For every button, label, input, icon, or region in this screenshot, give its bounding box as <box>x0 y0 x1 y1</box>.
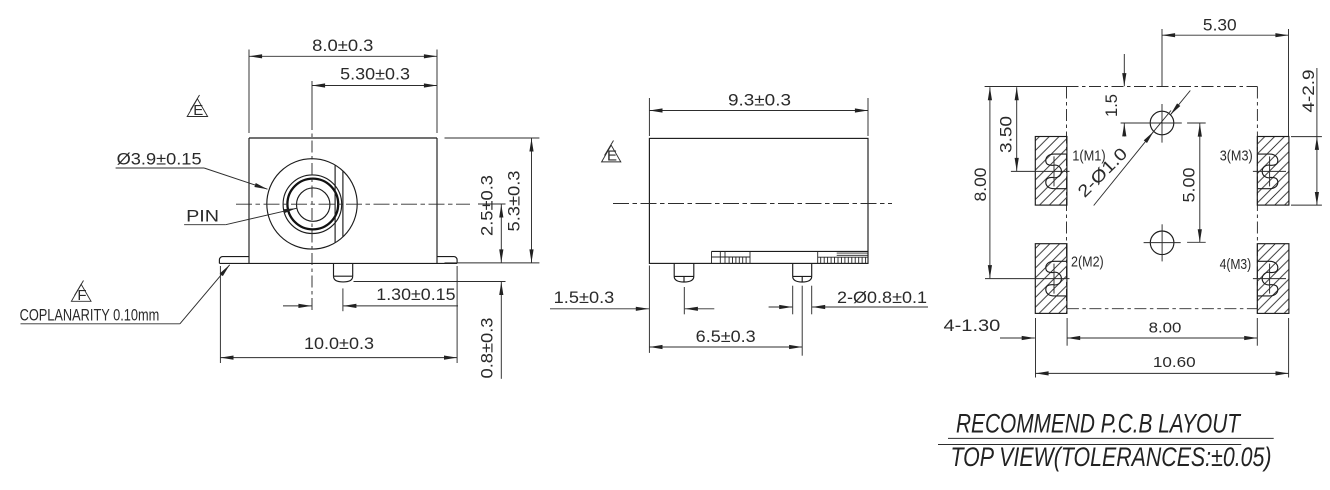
svg-text:5.3±0.3: 5.3±0.3 <box>505 171 524 232</box>
dimension 5.30 <box>1162 16 1289 136</box>
svg-text:3(M3): 3(M3) <box>1220 148 1253 165</box>
front view right flange <box>437 257 457 264</box>
svg-text:6.5±0.3: 6.5±0.3 <box>696 327 756 346</box>
extension lines right side front <box>445 137 540 139</box>
svg-text:1(M1): 1(M1) <box>1072 148 1106 165</box>
pad 3 center tick <box>1253 170 1286 172</box>
dimension 3.50 <box>997 87 1017 171</box>
svg-text:E: E <box>607 148 617 165</box>
coplanarity note with leader <box>20 265 230 325</box>
pad 2 center tick / 8.00 extension <box>985 278 1070 280</box>
svg-text:COPLANARITY 0.10mm: COPLANARITY 0.10mm <box>20 305 160 324</box>
dimension 8.00 left <box>971 87 990 278</box>
svg-text:10.60: 10.60 <box>1153 354 1196 371</box>
dimension 2-Ø0.8±0.1 <box>769 286 928 315</box>
contact ring bold <box>287 179 338 230</box>
title recommend pcb layout <box>938 409 1274 445</box>
pad 4 center tick <box>1253 278 1286 280</box>
center pin hole circle <box>297 188 330 221</box>
svg-text:10.0±0.3: 10.0±0.3 <box>304 334 374 353</box>
svg-text:0.8±0.3: 0.8±0.3 <box>478 318 497 379</box>
dimension 1.5±0.3 <box>550 287 714 314</box>
side view bottom ledge <box>712 250 869 252</box>
dimension 8.00 bottom <box>1067 318 1257 346</box>
svg-text:8.00: 8.00 <box>971 168 990 202</box>
datum triangle E side <box>602 141 621 165</box>
horizontal centerline side <box>613 203 892 205</box>
horizontal centerline front <box>236 203 470 205</box>
hole circle top <box>1121 104 1206 143</box>
label Ø3.9±0.15 with leader <box>116 150 268 190</box>
front view left flange <box>219 257 249 264</box>
label PIN with leader <box>184 207 296 226</box>
svg-text:2.5±0.3: 2.5±0.3 <box>478 175 497 236</box>
leader 2-Ø1.0 <box>1074 91 1190 206</box>
svg-text:Ø3.9±0.15: Ø3.9±0.15 <box>117 150 202 169</box>
svg-text:2-Ø0.8±0.1: 2-Ø0.8±0.1 <box>837 288 927 307</box>
svg-text:9.3±0.3: 9.3±0.3 <box>728 90 791 109</box>
contact-spring bar <box>334 166 336 243</box>
barrel outer circle <box>267 159 357 249</box>
pad 2 hatched <box>1035 244 1067 314</box>
svg-text:5.30±0.3: 5.30±0.3 <box>340 64 410 83</box>
svg-text:1.5: 1.5 <box>1102 94 1121 117</box>
svg-text:1.30±0.15: 1.30±0.15 <box>376 285 455 304</box>
side view left pin <box>674 263 694 282</box>
svg-text:3.50: 3.50 <box>997 116 1016 153</box>
svg-text:RECOMMEND P.C.B LAYOUT: RECOMMEND P.C.B LAYOUT <box>956 409 1242 439</box>
dimension 4-2.9 <box>1291 68 1322 205</box>
svg-text:8.00: 8.00 <box>1149 320 1182 337</box>
svg-text:4-2.9: 4-2.9 <box>1299 70 1318 113</box>
side view body outline <box>649 138 868 263</box>
dimension 8.0±0.3 <box>249 36 437 133</box>
svg-text:2(M2): 2(M2) <box>1071 254 1104 271</box>
dimension 1.30±0.15 <box>283 285 458 311</box>
dimension 4-1.30 <box>944 316 1035 338</box>
hole circle bottom <box>1144 224 1206 261</box>
svg-text:4(M3): 4(M3) <box>1220 256 1252 273</box>
dimension 0.8±0.3 <box>478 282 502 379</box>
svg-text:5.00: 5.00 <box>1180 168 1199 203</box>
svg-text:1.5±0.3: 1.5±0.3 <box>554 288 615 307</box>
knurl band left <box>712 251 751 263</box>
pad 4 hatched <box>1257 244 1289 314</box>
datum triangle F <box>71 281 91 305</box>
dimension 10.60 <box>1036 318 1289 378</box>
front solder pin <box>334 263 353 282</box>
svg-text:5.30: 5.30 <box>1203 16 1237 35</box>
pad 1 hatched <box>1035 137 1067 206</box>
pcb outline chain rectangle <box>1067 87 1258 314</box>
pad 2 slot <box>1046 261 1067 296</box>
svg-text:4-1.30: 4-1.30 <box>944 316 1001 335</box>
dimension 9.3±0.3 <box>649 90 868 136</box>
contact ring outer <box>283 175 342 234</box>
pad 3 hatched <box>1257 137 1289 206</box>
pad 4 slot <box>1258 261 1278 296</box>
dimension 5.3±0.3 <box>505 138 532 262</box>
pad 1 slot <box>1046 154 1067 189</box>
svg-text:PIN: PIN <box>186 207 219 226</box>
datum triangle E front <box>187 95 207 119</box>
svg-text:8.0±0.3: 8.0±0.3 <box>312 36 373 55</box>
dimension 6.5±0.3 <box>649 266 802 356</box>
side view right pin <box>793 263 812 282</box>
knurl band right <box>818 251 868 263</box>
svg-text:F: F <box>77 287 86 304</box>
dimension 5.30±0.3 <box>312 64 437 85</box>
dimension 10.0±0.3 <box>220 266 457 363</box>
svg-text:TOP VIEW(TOLERANCES:±0.05): TOP VIEW(TOLERANCES:±0.05) <box>951 442 1272 472</box>
vertical centerline front <box>311 81 313 118</box>
front view body outline <box>219 138 457 263</box>
dimension 1.5 <box>1102 54 1125 137</box>
svg-text:E: E <box>193 102 203 119</box>
pad 3 slot <box>1258 154 1278 189</box>
dimension 5.00 <box>1180 124 1200 243</box>
dimension 2.5±0.3 <box>478 175 502 263</box>
pad 1 center tick / 3.50 extension <box>1011 170 1070 172</box>
